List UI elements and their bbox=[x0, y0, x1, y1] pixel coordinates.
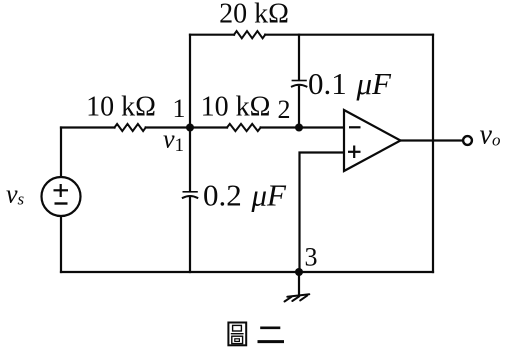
voltage source vs plus sign bbox=[54, 184, 69, 197]
resistor R1 10k input zigzag bbox=[115, 124, 146, 131]
wire node 3 to ground stem bbox=[298, 272, 300, 294]
caption figure 2 (CJK drawn as strokes) bbox=[228, 323, 282, 346]
node 1 junction dot bbox=[186, 124, 194, 132]
svg-text:0.1 μF: 0.1 μF bbox=[308, 66, 392, 101]
svg-text:vs: vs bbox=[6, 180, 25, 209]
svg-text:vo: vo bbox=[480, 120, 501, 151]
capacitor C2 0.2uF top plate bbox=[183, 191, 197, 193]
node 2 junction dot bbox=[295, 124, 303, 132]
output terminal vo circle bbox=[463, 136, 472, 145]
wire left input horizontal bbox=[61, 126, 115, 128]
wire node1 down to capacitor C2 bbox=[189, 128, 191, 192]
op-amp U1 minus sign bbox=[349, 126, 361, 128]
svg-text:1: 1 bbox=[173, 94, 186, 123]
voltage source vs minus sign bbox=[55, 202, 68, 204]
caption glyph er (two) bbox=[259, 328, 283, 342]
wire capacitor C1 down to node 2 bbox=[298, 87, 300, 128]
wire op-amp plus input to node 3 branch bbox=[300, 153, 345, 273]
svg-text:10 kΩ: 10 kΩ bbox=[86, 92, 156, 123]
svg-text:v1: v1 bbox=[163, 125, 184, 157]
svg-text:0.2 μF: 0.2 μF bbox=[203, 178, 287, 213]
caption glyph tu (figure) bbox=[228, 323, 246, 346]
wire branch x190 upper (top wire to node 1) bbox=[189, 35, 191, 128]
resistor R2 20k zigzag bbox=[234, 31, 265, 38]
node 3 junction dot bbox=[295, 268, 303, 276]
capacitor C1 0.1uF top plate bbox=[292, 80, 306, 82]
wire node1 horizontal bbox=[146, 126, 227, 128]
wire node2 to op-amp minus input bbox=[261, 126, 344, 128]
wire left vertical lower from source bbox=[60, 216, 62, 272]
wire top right segment bbox=[265, 34, 433, 36]
wire op-amp output bbox=[401, 139, 463, 141]
wire bottom rail bbox=[61, 271, 433, 273]
svg-text:2: 2 bbox=[278, 95, 291, 124]
wire right vertical bbox=[432, 35, 434, 272]
svg-text:20 kΩ: 20 kΩ bbox=[219, 0, 289, 30]
wire capacitor C2 to bottom rail bbox=[189, 198, 191, 272]
capacitor C2 0.2uF bottom curved plate bbox=[183, 196, 198, 198]
voltage source vs circle bbox=[42, 177, 81, 216]
resistor R3 10k middle zigzag bbox=[227, 124, 261, 131]
ground symbol at node 3 bbox=[285, 294, 310, 301]
wire branch x299 top wire down to capacitor C1 bbox=[298, 35, 300, 80]
wire left vertical upper to source bbox=[60, 128, 62, 178]
wire top left segment bbox=[190, 34, 234, 36]
op-amp U1 triangle bbox=[344, 110, 401, 171]
capacitor C1 0.1uF bottom curved plate bbox=[292, 85, 307, 87]
op-amp U1 plus sign bbox=[348, 146, 361, 159]
svg-text:10 kΩ: 10 kΩ bbox=[201, 92, 271, 123]
svg-text:3: 3 bbox=[305, 243, 318, 272]
